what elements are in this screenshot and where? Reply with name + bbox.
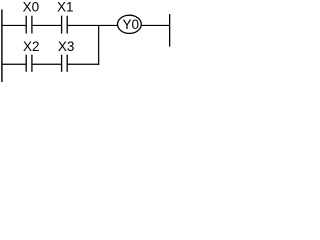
left power rail [1, 9, 2, 82]
wire rung1 coil to right rail [141, 24, 170, 26]
wire rung1 X0 to X1 [32, 24, 61, 26]
contact X3 [62, 55, 68, 72]
contact X0 [26, 16, 32, 34]
label X0 [23, 0, 40, 15]
svg-text:X0: X0 [23, 0, 40, 15]
label X2 [23, 39, 40, 54]
contact X1 [62, 16, 68, 34]
label X3 [58, 39, 75, 54]
svg-text:X3: X3 [58, 39, 75, 54]
wire rung1 X1 to coil Y0 [68, 24, 118, 26]
label X1 [57, 0, 74, 15]
wire rung1 rail to X0 [2, 24, 26, 26]
right power rail [169, 14, 170, 47]
wire rung2 rail to X2 [2, 63, 26, 65]
label Y0 [123, 17, 140, 32]
svg-text:Y0: Y0 [123, 17, 140, 32]
wire rung2 X2 to X3 [32, 63, 61, 65]
coil Y0 [117, 15, 141, 33]
wire rung2 X3 to branch corner [68, 63, 100, 65]
svg-text:X2: X2 [23, 39, 40, 54]
svg-text:X1: X1 [57, 0, 74, 15]
wire branch vertical to rung1 junction [98, 25, 100, 64]
contact X2 [26, 55, 32, 72]
